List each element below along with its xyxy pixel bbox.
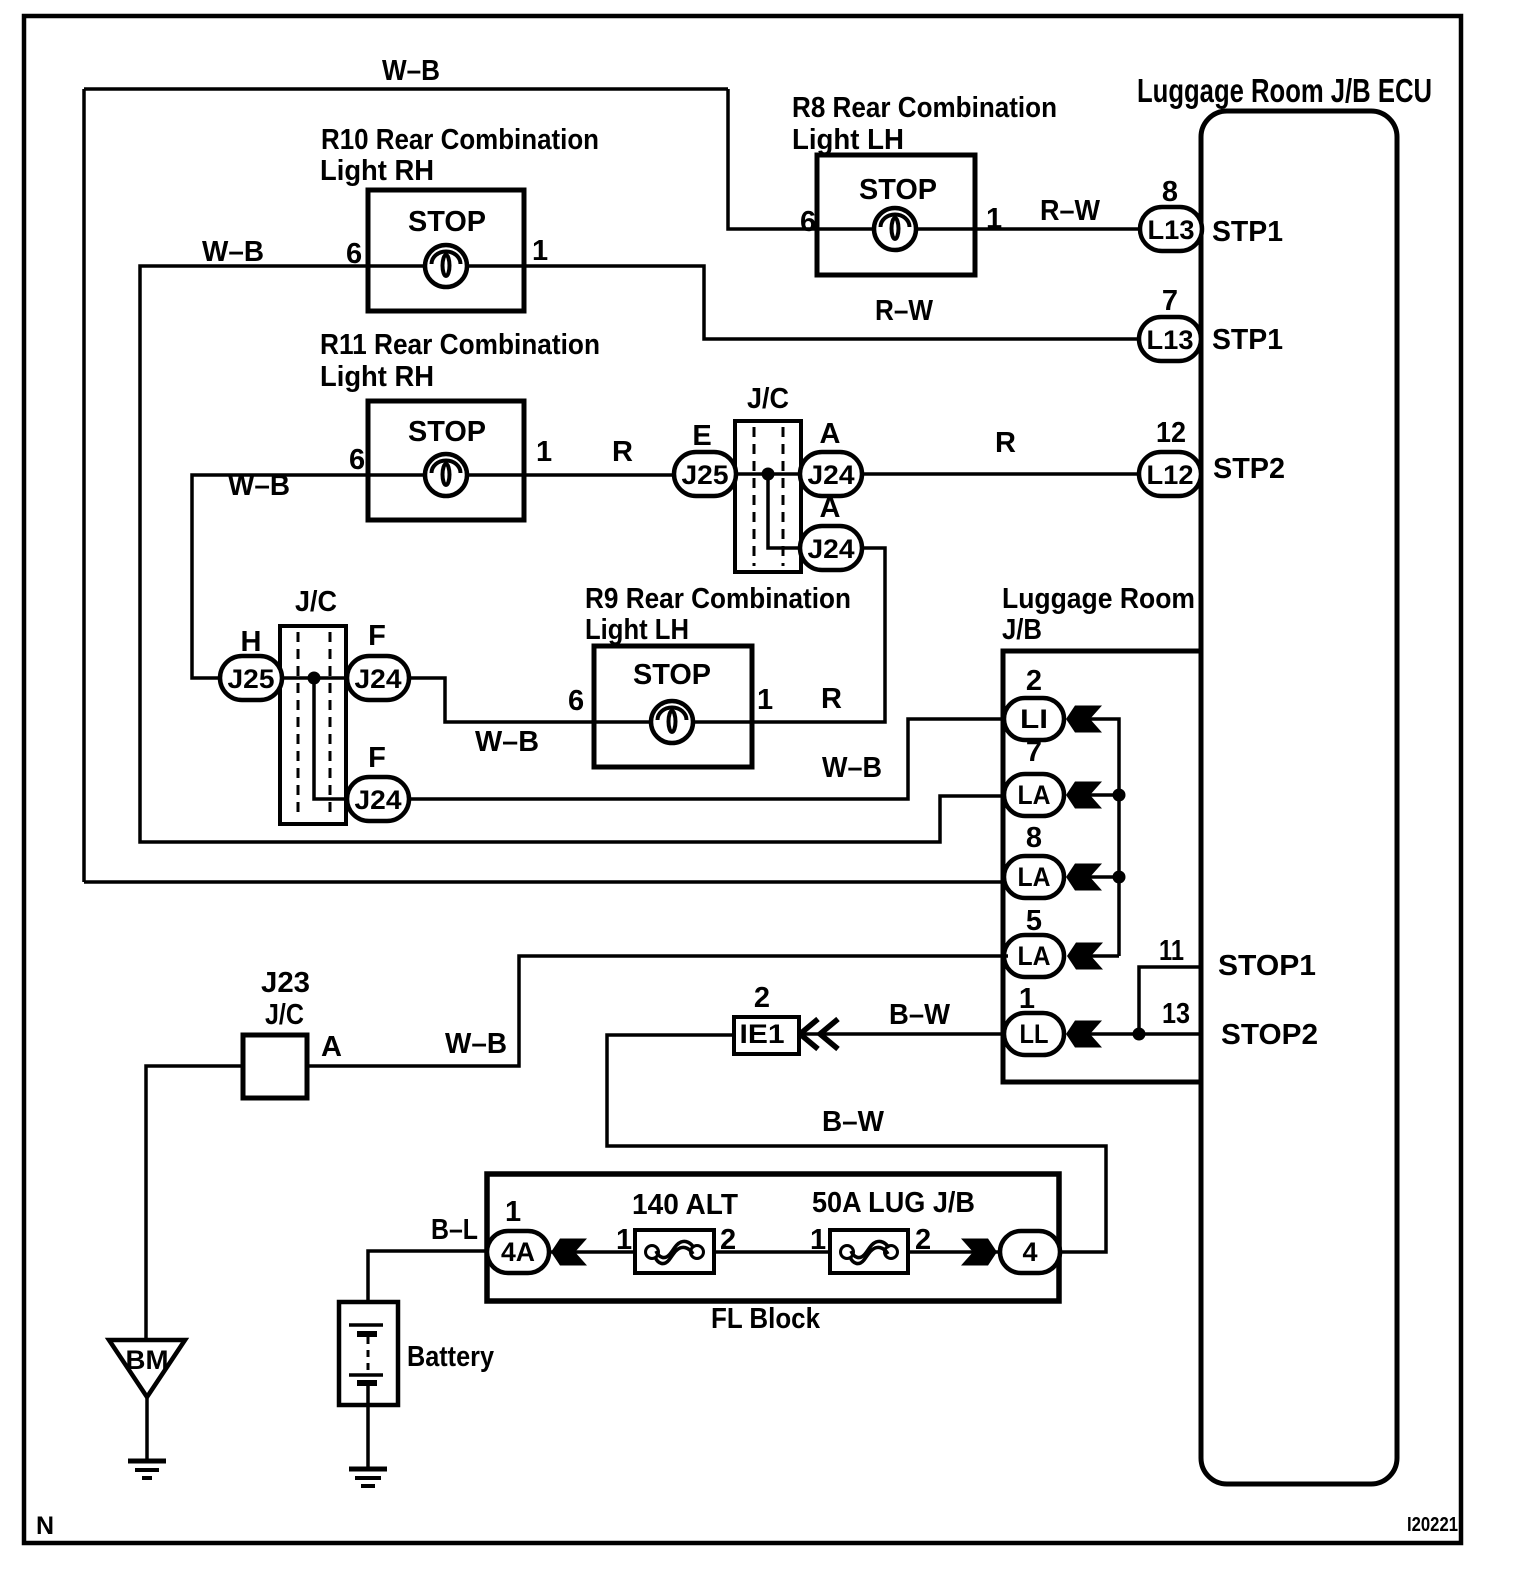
svg-text:1: 1 [616, 1224, 632, 1256]
arrow LA8 [1066, 864, 1102, 891]
svg-text:STP1: STP1 [1212, 216, 1283, 248]
svg-text:1: 1 [532, 235, 548, 267]
lamp R8 STOP [817, 155, 975, 275]
svg-text:R9 Rear Combination: R9 Rear Combination [585, 583, 851, 615]
svg-text:J25: J25 [682, 460, 729, 490]
svg-text:STOP: STOP [408, 206, 486, 238]
node junction dot [1113, 871, 1126, 884]
svg-text:J24: J24 [808, 460, 855, 490]
wire through J/C [735, 472, 801, 476]
wire through R11 [368, 473, 524, 477]
lamp R11 STOP [368, 401, 524, 520]
wire through FL block [548, 1250, 1000, 1254]
connector L13 pin7 [1139, 317, 1201, 361]
connector J24 A [800, 452, 862, 496]
wire R10 pin1 to L13-7 [524, 266, 1140, 339]
svg-text:8: 8 [1026, 822, 1042, 854]
svg-text:50A LUG J/B: 50A LUG J/B [812, 1187, 975, 1219]
svg-text:J24: J24 [355, 664, 402, 694]
wire bus to LA5 arrow [1091, 954, 1119, 958]
svg-text:140 ALT: 140 ALT [632, 1189, 738, 1221]
fuse 50A LUG J/B [830, 1230, 908, 1273]
svg-text:E: E [692, 420, 711, 452]
svg-text:R10 Rear Combination: R10 Rear Combination [321, 124, 599, 156]
wire through R10 [368, 264, 524, 268]
ground triangle BM [109, 1340, 185, 1397]
svg-text:J24: J24 [808, 534, 855, 564]
connector IE1 [734, 1017, 799, 1054]
svg-text:5: 5 [1026, 905, 1042, 937]
ground symbol battery [349, 1469, 387, 1486]
wire to R8 pin 6 [728, 89, 817, 229]
junction block J23 [243, 1035, 307, 1098]
svg-text:STOP1: STOP1 [1218, 950, 1316, 982]
wire STOP1 stub [1139, 967, 1201, 1034]
wire R11 pin1 to J25 E [524, 473, 675, 477]
connector LL [1004, 1013, 1064, 1055]
connector L12 [1139, 452, 1201, 496]
svg-text:R: R [612, 436, 633, 468]
wire through J/C left [280, 676, 347, 680]
svg-text:1: 1 [505, 1196, 521, 1228]
svg-text:J/C: J/C [747, 383, 789, 415]
svg-text:R: R [821, 683, 842, 715]
svg-text:F: F [368, 742, 386, 774]
wire J24 F2 to LI [409, 719, 1004, 799]
svg-text:STP2: STP2 [1213, 453, 1285, 485]
connector L13 [1140, 207, 1202, 251]
ground symbol BM [128, 1461, 166, 1478]
svg-text:R: R [995, 427, 1016, 459]
connector J25 E [674, 452, 736, 496]
arrow double chevron [800, 1019, 838, 1049]
connector 4A [487, 1231, 549, 1273]
node junction dot [1113, 789, 1126, 802]
svg-text:1: 1 [757, 684, 773, 716]
wire R11 pin6 to J25 H [192, 475, 368, 678]
wire LI arrow to bus [1090, 719, 1119, 956]
junction block J/C right [735, 421, 801, 572]
svg-text:1: 1 [1019, 983, 1035, 1015]
svg-text:2: 2 [720, 1224, 736, 1256]
wire BM to ground [145, 1397, 149, 1459]
connector J24 F [347, 656, 409, 700]
svg-text:W–B: W–B [475, 726, 539, 758]
svg-text:BM: BM [126, 1345, 169, 1375]
arrow 4A [551, 1239, 587, 1266]
arrow LA7 [1066, 782, 1102, 809]
ECU box Luggage Room J/B ECU [1201, 111, 1397, 1484]
svg-text:J25: J25 [228, 664, 275, 694]
connector LI [1004, 698, 1064, 740]
svg-text:J23: J23 [261, 967, 310, 999]
svg-text:1: 1 [810, 1224, 826, 1256]
wire J24 F to R9 pin6 [409, 678, 595, 722]
svg-text:Battery: Battery [407, 1341, 494, 1373]
svg-text:A: A [820, 418, 841, 450]
connector LA 5 [1004, 935, 1064, 977]
wire through R8 [817, 227, 975, 231]
wire R10 pin6 to LA7 [140, 266, 1004, 842]
arrow right into 4 [961, 1239, 997, 1266]
svg-text:Light RH: Light RH [320, 155, 434, 187]
arrow LA5 [1067, 943, 1103, 970]
connector LA 7 [1004, 774, 1064, 816]
svg-text:Light LH: Light LH [585, 614, 689, 646]
svg-text:Light LH: Light LH [792, 124, 904, 156]
svg-text:W–B: W–B [202, 236, 264, 268]
connector J24 A2 [800, 526, 862, 570]
svg-text:F: F [368, 620, 386, 652]
svg-text:6: 6 [349, 444, 365, 476]
svg-text:Luggage Room: Luggage Room [1002, 583, 1195, 615]
svg-text:STP1: STP1 [1212, 324, 1283, 356]
svg-text:IE1: IE1 [740, 1019, 785, 1049]
svg-text:8: 8 [1162, 176, 1178, 208]
connector LA 8 [1004, 856, 1064, 898]
svg-text:LL: LL [1020, 1019, 1049, 1049]
wire J24 A to L12 [862, 472, 1140, 476]
wire arrow stub [1090, 875, 1119, 879]
svg-text:LA: LA [1018, 780, 1051, 810]
svg-text:FL Block: FL Block [711, 1303, 821, 1335]
wire R8 pin1 to L13-8 [975, 227, 1140, 231]
connector J24 F2 [347, 777, 409, 821]
svg-text:A: A [820, 492, 841, 524]
svg-text:STOP: STOP [633, 659, 711, 691]
wire LL to IE1 chevrons [800, 1032, 1006, 1036]
svg-text:6: 6 [800, 206, 816, 238]
svg-text:11: 11 [1159, 935, 1184, 967]
svg-text:R–W: R–W [875, 295, 934, 327]
svg-text:R8 Rear Combination: R8 Rear Combination [792, 92, 1057, 124]
svg-text:LI: LI [1020, 704, 1048, 734]
arrow LL [1066, 1021, 1102, 1048]
wire arrow stub [1090, 793, 1119, 797]
fuse 140 ALT [635, 1230, 714, 1273]
wire battery to 4A [368, 1251, 487, 1325]
svg-text:I20221: I20221 [1407, 1514, 1458, 1536]
node junction dot [762, 468, 775, 481]
wire W-B top horizontal [84, 87, 728, 91]
svg-text:2: 2 [915, 1224, 931, 1256]
svg-text:13: 13 [1162, 998, 1190, 1030]
wire LA5 to J23 [307, 956, 1008, 1066]
svg-text:W–B: W–B [382, 55, 440, 87]
arrow LI [1066, 706, 1102, 733]
svg-text:W–B: W–B [822, 752, 882, 784]
wire J/C left internal to J24 F2 [314, 678, 347, 799]
svg-text:A: A [321, 1031, 342, 1063]
svg-text:B–W: B–W [889, 999, 951, 1031]
lamp R9 STOP [594, 646, 752, 767]
svg-text:1: 1 [536, 436, 552, 468]
svg-text:L13: L13 [1147, 325, 1194, 355]
wire J24 A2 to R9 pin1 [752, 548, 885, 722]
battery [339, 1302, 398, 1405]
svg-text:4A: 4A [501, 1237, 535, 1267]
svg-text:2: 2 [754, 982, 770, 1014]
wire IE1 to FL block 4 [607, 1035, 1106, 1252]
wire through R9 [595, 720, 752, 724]
wire J/C internal to J24 A2 [768, 474, 801, 548]
node junction dot [1133, 1028, 1146, 1041]
svg-text:Light RH: Light RH [320, 361, 434, 393]
wire left vertical W-B [82, 89, 86, 882]
svg-text:H: H [241, 626, 262, 658]
svg-text:L13: L13 [1148, 215, 1195, 245]
svg-text:L12: L12 [1147, 460, 1194, 490]
svg-text:J/C: J/C [295, 586, 337, 618]
svg-text:STOP: STOP [859, 174, 937, 206]
svg-text:LA: LA [1018, 862, 1051, 892]
svg-text:Luggage Room J/B ECU: Luggage Room J/B ECU [1137, 72, 1432, 109]
svg-text:2: 2 [1026, 665, 1042, 697]
junction box Luggage Room J/B [1003, 651, 1201, 1082]
svg-text:B–W: B–W [822, 1106, 885, 1138]
node junction dot [308, 672, 321, 685]
connector J25 H [220, 656, 282, 700]
svg-text:J/C: J/C [265, 999, 304, 1031]
lamp R10 STOP [368, 190, 524, 311]
svg-text:STOP: STOP [408, 416, 486, 448]
svg-text:J/B: J/B [1002, 614, 1042, 646]
svg-text:B–L: B–L [431, 1214, 478, 1246]
wire battery to ground [366, 1383, 370, 1467]
svg-text:4: 4 [1022, 1237, 1037, 1267]
svg-text:R11 Rear Combination: R11 Rear Combination [320, 329, 600, 361]
svg-text:R–W: R–W [1040, 195, 1101, 227]
svg-text:J24: J24 [355, 785, 402, 815]
connector 4 [1000, 1231, 1060, 1273]
svg-text:LA: LA [1018, 941, 1051, 971]
wire LL arrow to ECU [1090, 1032, 1201, 1036]
wire J23 to BM [146, 1066, 243, 1341]
wire to LA pin 8 [84, 880, 1004, 884]
svg-text:N: N [36, 1512, 54, 1540]
svg-text:STOP2: STOP2 [1221, 1019, 1318, 1051]
svg-text:12: 12 [1156, 417, 1186, 449]
svg-text:W–B: W–B [445, 1028, 507, 1060]
svg-text:6: 6 [568, 685, 584, 717]
svg-text:7: 7 [1026, 736, 1042, 768]
junction block J/C left [280, 626, 346, 824]
block FL Block [487, 1174, 1059, 1301]
svg-text:7: 7 [1162, 285, 1178, 317]
